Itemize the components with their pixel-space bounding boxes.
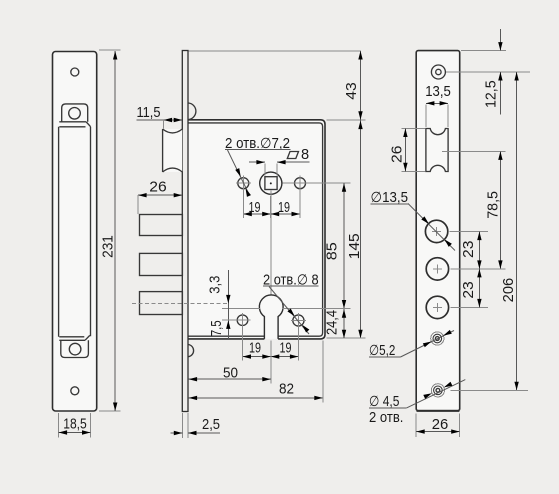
keyhole fixing hole right (8) — [293, 315, 304, 326]
keyhole cutout — [259, 295, 283, 339]
lock body case fill (middle view) — [188, 120, 325, 339]
cylinder hole 3 crosshair — [433, 303, 442, 312]
screw 4,5 extension — [451, 389, 529, 391]
dim 24,4 line — [343, 309, 345, 339]
dim 19 19 top line — [243, 213, 300, 215]
label 2 otv 8 leader arrows — [287, 308, 296, 317]
svg-text:24,4: 24,4 — [325, 310, 341, 335]
dim 82 line — [189, 397, 323, 399]
svg-text:8: 8 — [301, 147, 309, 163]
svg-text:26: 26 — [432, 417, 449, 433]
strike plate inner channel rectangle — [59, 127, 91, 337]
label d4,5 leader arrows — [423, 391, 433, 399]
keyhole axis extension line — [222, 308, 351, 310]
dim 26 window line — [404, 129, 406, 172]
strike plate outer body (left view) — [53, 52, 97, 412]
svg-text:82: 82 — [279, 382, 294, 398]
dim 23 23 line — [478, 232, 480, 308]
dim 85 arrows — [342, 183, 346, 192]
svg-text:26: 26 — [149, 180, 166, 196]
svg-text:12,5: 12,5 — [483, 80, 499, 108]
dim 145 line — [360, 120, 362, 338]
svg-text:145: 145 — [347, 233, 363, 259]
svg-text:11,5: 11,5 — [137, 105, 161, 121]
svg-text:43: 43 — [344, 82, 360, 100]
strike plate bottom screw hole — [71, 387, 79, 395]
cylinder hole extensions — [450, 232, 506, 308]
svg-text:19: 19 — [249, 341, 261, 357]
deadbolt 1 — [140, 215, 183, 236]
dim square 8 extensions — [265, 164, 277, 176]
keyhole fixing hole left (8) — [237, 315, 248, 326]
face plate bottom edge thick — [417, 410, 460, 412]
dim 78,5 arrows — [498, 151, 502, 160]
svg-text:23: 23 — [461, 241, 477, 258]
screw hole 5,2 rings — [431, 332, 444, 345]
dim 231 extension lines — [99, 50, 121, 411]
cylinder hole 2 — [426, 258, 448, 280]
deadbolt 2 — [140, 253, 183, 275]
dim 43 extension from faceplate top — [189, 50, 362, 52]
label 2 otv 7,2 leader — [228, 150, 249, 193]
faceplate bottom spring bump — [189, 345, 194, 357]
face plate body (right view) — [416, 51, 460, 411]
dim 206 arrows — [514, 72, 518, 81]
fixing hole right (7,2) — [295, 178, 306, 189]
dim 11,5 extension — [163, 120, 165, 129]
label 2 otv 8 leader — [269, 287, 309, 335]
dim 2,5 extensions — [182, 413, 188, 438]
label 2 otv 7,2 underline — [225, 149, 290, 151]
dim 82 arrows — [189, 396, 198, 400]
svg-text:23: 23 — [461, 281, 477, 298]
dim 2,5 line and arrows — [171, 432, 221, 434]
dim 43 extension at body top — [327, 119, 366, 121]
dim 78,5 line — [499, 151, 501, 269]
cylinder hole 1 crosshair — [432, 227, 441, 236]
dim 11,5 arrows — [164, 118, 173, 122]
screw hole 4,5 rings — [431, 384, 444, 397]
dim 26 bottom line — [416, 431, 460, 433]
dim 50 arrows — [189, 377, 198, 381]
label d13,5 leader — [408, 204, 455, 251]
strike plate bottom pocket circle — [69, 343, 81, 355]
faceplate top spring bump — [189, 103, 196, 120]
dim 18,5 arrows — [59, 430, 68, 434]
dim 231 line — [114, 51, 116, 411]
screw center extension top — [446, 71, 530, 73]
dim 145 arrows — [358, 121, 362, 130]
svg-text:85: 85 — [324, 242, 340, 260]
dim 26 window arrows — [403, 129, 407, 138]
fixing hole left (7,2) — [238, 178, 249, 189]
dim 145 bottom extension — [327, 337, 366, 339]
faceplate strip (middle view) — [182, 51, 188, 412]
latch window (bobbin shape) — [426, 129, 448, 172]
dim 19 19 bottom arrows — [243, 354, 252, 358]
spindle square hole circle — [260, 172, 282, 194]
dim 19 19 bottom line — [243, 356, 299, 358]
svg-text:26: 26 — [390, 146, 406, 163]
dim 18,5 extension lines — [59, 413, 91, 438]
dim 26 window extensions — [402, 129, 426, 172]
dim 19 19 top arrows — [243, 212, 252, 216]
dim square 8 line with arrows — [249, 161, 310, 163]
dim 3,3 line and arrows — [227, 270, 229, 339]
strike plate bottom latch pocket — [61, 340, 89, 357]
svg-text:19: 19 — [280, 341, 292, 357]
svg-text:78,5: 78,5 — [485, 191, 501, 219]
label 2 otv 8 underline — [263, 285, 319, 287]
strike plate top screw hole — [71, 68, 79, 76]
svg-text:231: 231 — [101, 235, 117, 258]
dim 26 arrows — [138, 193, 147, 197]
dim 43 arrows — [358, 51, 362, 60]
dim 12,5 line and arrows — [499, 29, 501, 115]
strike plate top lip strip — [59, 122, 90, 127]
deadbolt 3 — [140, 292, 183, 315]
svg-text:13,5: 13,5 — [425, 84, 451, 100]
dim 11,5 line — [137, 119, 183, 121]
dim 13,5 line — [426, 102, 448, 104]
label d4,5 underline — [369, 407, 407, 409]
dim 85 line — [343, 183, 345, 308]
cylinder hole 3 — [426, 296, 448, 318]
dim 26 bottom extensions — [416, 414, 460, 438]
svg-text:7,5: 7,5 — [209, 320, 225, 336]
dim 26 extension — [137, 195, 139, 214]
label square 8 symbol — [287, 152, 298, 159]
svg-text:18,5: 18,5 — [63, 417, 87, 433]
keyhole fixing hole left crosshair — [242, 313, 244, 327]
label d5,2 leader — [401, 331, 455, 358]
spindle square hole — [265, 177, 277, 190]
spindle center dot — [270, 182, 272, 184]
cylinder hole 2 crosshair — [433, 264, 442, 273]
svg-text:2,5: 2,5 — [202, 417, 220, 433]
cylinder hole 1 — [425, 220, 447, 242]
deadbolt axis dashed centerline — [132, 302, 228, 304]
dim 19 19 top extensions — [243, 190, 300, 219]
dim 26 bottom arrows — [416, 429, 425, 433]
dim 24,4 arrows — [342, 309, 346, 318]
dim 19 19 bottom extensions — [243, 326, 299, 384]
face plate top screw hole outer — [431, 65, 445, 79]
dim 13,5 extensions — [426, 105, 448, 128]
lock body inner outline — [188, 123, 323, 336]
latch window centerline — [442, 150, 506, 152]
dim 26 line — [138, 194, 182, 196]
label d13,5 underline — [371, 203, 410, 205]
dim 50 line — [189, 378, 271, 380]
strike plate top latch pocket — [62, 104, 88, 122]
label d5,2 underline — [369, 356, 401, 358]
strike plate bottom lip strip — [59, 335, 90, 340]
dim 82 extension — [322, 341, 324, 403]
label 2 otv 7,2 leader arrows — [235, 168, 242, 178]
dim 231 arrows — [113, 51, 117, 60]
spindle vertical centerline — [270, 191, 272, 296]
label d4,5 leader — [407, 380, 466, 408]
label d5,2 leader arrows — [423, 340, 433, 348]
lock body outer outline — [188, 120, 325, 339]
label d13,5 leader arrows — [421, 216, 430, 225]
svg-text:206: 206 — [501, 278, 517, 303]
strike plate top pocket circle — [69, 108, 81, 120]
svg-text:2 отв.: 2 отв. — [369, 410, 403, 426]
fixing hole left crosshair — [236, 176, 251, 191]
dim 13,5 arrows — [426, 101, 435, 105]
dim 43 line — [360, 51, 362, 120]
dim 23 23 arrows — [477, 232, 481, 241]
plate top extension — [461, 50, 506, 52]
face plate top screw hole inner — [436, 69, 441, 74]
dim 206 line — [516, 72, 518, 390]
dim 18,5 line — [59, 432, 91, 434]
dim 7,5 hole axis extension — [222, 319, 251, 321]
keyhole fixing hole right crosshair — [291, 313, 306, 328]
svg-text:3,3: 3,3 — [208, 276, 224, 294]
fixing hole right crosshair and centerline to body edge — [282, 176, 350, 191]
latch bolt (bevelled) — [163, 129, 183, 172]
